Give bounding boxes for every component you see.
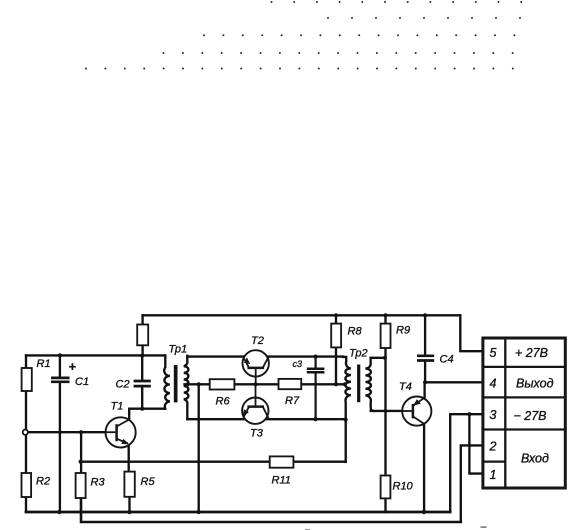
svg-text:+ 27В: + 27В xyxy=(515,346,548,360)
svg-text:T1: T1 xyxy=(111,401,124,413)
svg-text:Вход: Вход xyxy=(521,452,549,466)
svg-text:+: + xyxy=(69,360,77,374)
svg-text:T4: T4 xyxy=(399,381,412,393)
svg-text:R11: R11 xyxy=(272,475,291,487)
svg-text:R2: R2 xyxy=(36,476,50,488)
svg-text:Тр1: Тр1 xyxy=(169,344,188,356)
svg-text:T3: T3 xyxy=(250,428,264,440)
svg-text:R7: R7 xyxy=(285,395,300,407)
svg-text:R3: R3 xyxy=(91,477,106,489)
svg-text:4: 4 xyxy=(490,377,497,391)
svg-text:5: 5 xyxy=(490,346,497,360)
svg-text:Тр2: Тр2 xyxy=(349,348,368,360)
svg-text:2: 2 xyxy=(489,440,497,454)
svg-text:R5: R5 xyxy=(141,476,156,488)
svg-text:C2: C2 xyxy=(116,379,130,391)
svg-text:C4: C4 xyxy=(440,354,454,366)
svg-text:с3: с3 xyxy=(293,359,303,369)
svg-text:R10: R10 xyxy=(393,481,414,493)
svg-text:1: 1 xyxy=(490,468,497,482)
svg-text:Выход: Выход xyxy=(516,377,554,391)
svg-text:T2: T2 xyxy=(251,335,264,347)
svg-text:C1: C1 xyxy=(75,376,89,388)
svg-text:R8: R8 xyxy=(348,326,363,338)
svg-text:R1: R1 xyxy=(37,358,51,370)
svg-text:R9: R9 xyxy=(396,325,410,337)
svg-text:R6: R6 xyxy=(216,396,231,408)
svg-text:− 27В: − 27В xyxy=(514,409,547,423)
svg-text:3: 3 xyxy=(490,408,497,422)
